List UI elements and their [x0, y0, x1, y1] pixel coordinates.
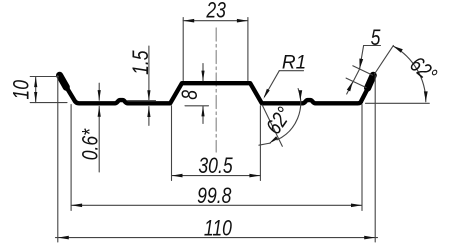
dim 8 upper arrow [202, 64, 204, 81]
dim 5 arrow upper [359, 59, 363, 70]
svg-text:5: 5 [371, 26, 382, 50]
leader R1 line [265, 71, 280, 97]
angle 62 upper arrow bottom [424, 91, 428, 101]
svg-text:99.8: 99.8 [197, 184, 231, 208]
angle 62 upper arrow top [393, 46, 403, 53]
wire profile main outline [65, 83, 367, 103]
dim 1.5 extension line [128, 100, 156, 102]
dim 99.8 arrows [71, 204, 362, 208]
dim 110 line [56, 237, 378, 239]
dim 0.6 lower arrow [98, 106, 100, 172]
svg-text:62°: 62° [405, 52, 441, 88]
dim 99.8 extension lines [70, 105, 72, 211]
svg-text:0.6*: 0.6* [79, 128, 103, 160]
dim 1.5 lower arrow [148, 107, 150, 126]
left lip hem [60, 75, 67, 87]
dim 5 shelf [364, 45, 381, 47]
dim 8 extension line [185, 105, 209, 107]
centerline [215, 28, 217, 152]
svg-text:62°: 62° [262, 103, 297, 139]
dim 1.5 upper arrow [148, 46, 150, 100]
svg-text:23: 23 [205, 0, 225, 23]
svg-text:110: 110 [204, 217, 232, 241]
svg-text:10: 10 [10, 80, 34, 100]
dim 10 line [35, 77, 37, 103]
leader R1 shelf [279, 70, 303, 72]
angle 62 upper arc [393, 46, 426, 102]
dim 5 extension line upper [353, 66, 373, 75]
dim 5 arrow lower [347, 81, 353, 91]
dim 30.5 arrows [172, 174, 261, 178]
angle 62 upper rise extension [375, 45, 394, 74]
dim 8 lower arrow [202, 106, 204, 124]
angle 62 lower slope extension [262, 105, 282, 146]
angle 62 lower arrow top [298, 90, 302, 100]
dim 5 extension line lower [346, 78, 366, 87]
dim 23 arrows [183, 19, 248, 23]
dim 0.6 upper arrow [98, 83, 100, 100]
svg-text:R1: R1 [282, 52, 306, 73]
angle 62 upper flange extension [366, 102, 430, 104]
dim 10 extension lines [30, 76, 58, 78]
leader R1 arrow [263, 89, 269, 99]
dim 30.5 line [172, 175, 261, 177]
svg-text:30.5: 30.5 [198, 154, 233, 178]
dim 110 arrows [58, 236, 375, 240]
dim 23 extension lines [182, 18, 184, 81]
dim 110 extension lines [57, 76, 59, 243]
angle 62 lower arrow bottom tail [259, 143, 271, 145]
dim 5 leader [360, 46, 364, 70]
dim 30.5 extension lines [171, 106, 173, 181]
dim 10 arrows [34, 77, 37, 103]
right lip hem [368, 75, 374, 88]
svg-text:1.5: 1.5 [129, 50, 153, 75]
dim 23 line [183, 20, 248, 22]
svg-text:8: 8 [178, 90, 202, 100]
dim 99.8 line [71, 204, 362, 206]
angle 62 lower arc [277, 89, 301, 140]
angle 62 lower arrow bottom [269, 136, 278, 144]
dim 5 dimension line [347, 69, 360, 94]
